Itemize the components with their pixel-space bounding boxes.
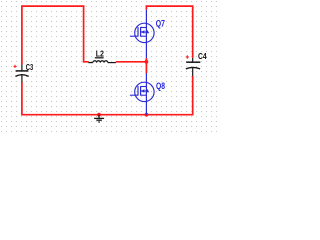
capacitor C4 (186, 58, 201, 76)
wire: vertical between Q7 source and Q8 drain (145, 58, 147, 74)
capacitor C4 polarity plus (186, 55, 189, 58)
wire: bottom net C3-ground-Q8-C4 (22, 76, 193, 115)
svg-text:C3: C3 (26, 62, 34, 72)
svg-text:C4: C4 (198, 51, 207, 61)
capacitor C3 (15, 65, 28, 83)
junction: ground node (97, 113, 101, 117)
wire: net1 left loop (C3 top to L2 left) (22, 6, 89, 64)
wire: Q7 drain to C4 top (146, 6, 192, 58)
capacitor C3 polarity plus (14, 65, 17, 68)
junction: L2/Q7/Q8 node (145, 60, 149, 64)
transistor Q7 (130, 10, 154, 58)
svg-text:L2: L2 (96, 49, 105, 59)
inductor L2 (88, 61, 115, 63)
wire: L2 right to Q7/Q8 midpoint (116, 61, 147, 63)
junction: Q8 source node (145, 113, 149, 117)
ground (94, 115, 104, 122)
svg-text:Q7: Q7 (156, 18, 165, 28)
svg-text:Q8: Q8 (156, 81, 165, 91)
transistor Q8 (130, 73, 154, 115)
